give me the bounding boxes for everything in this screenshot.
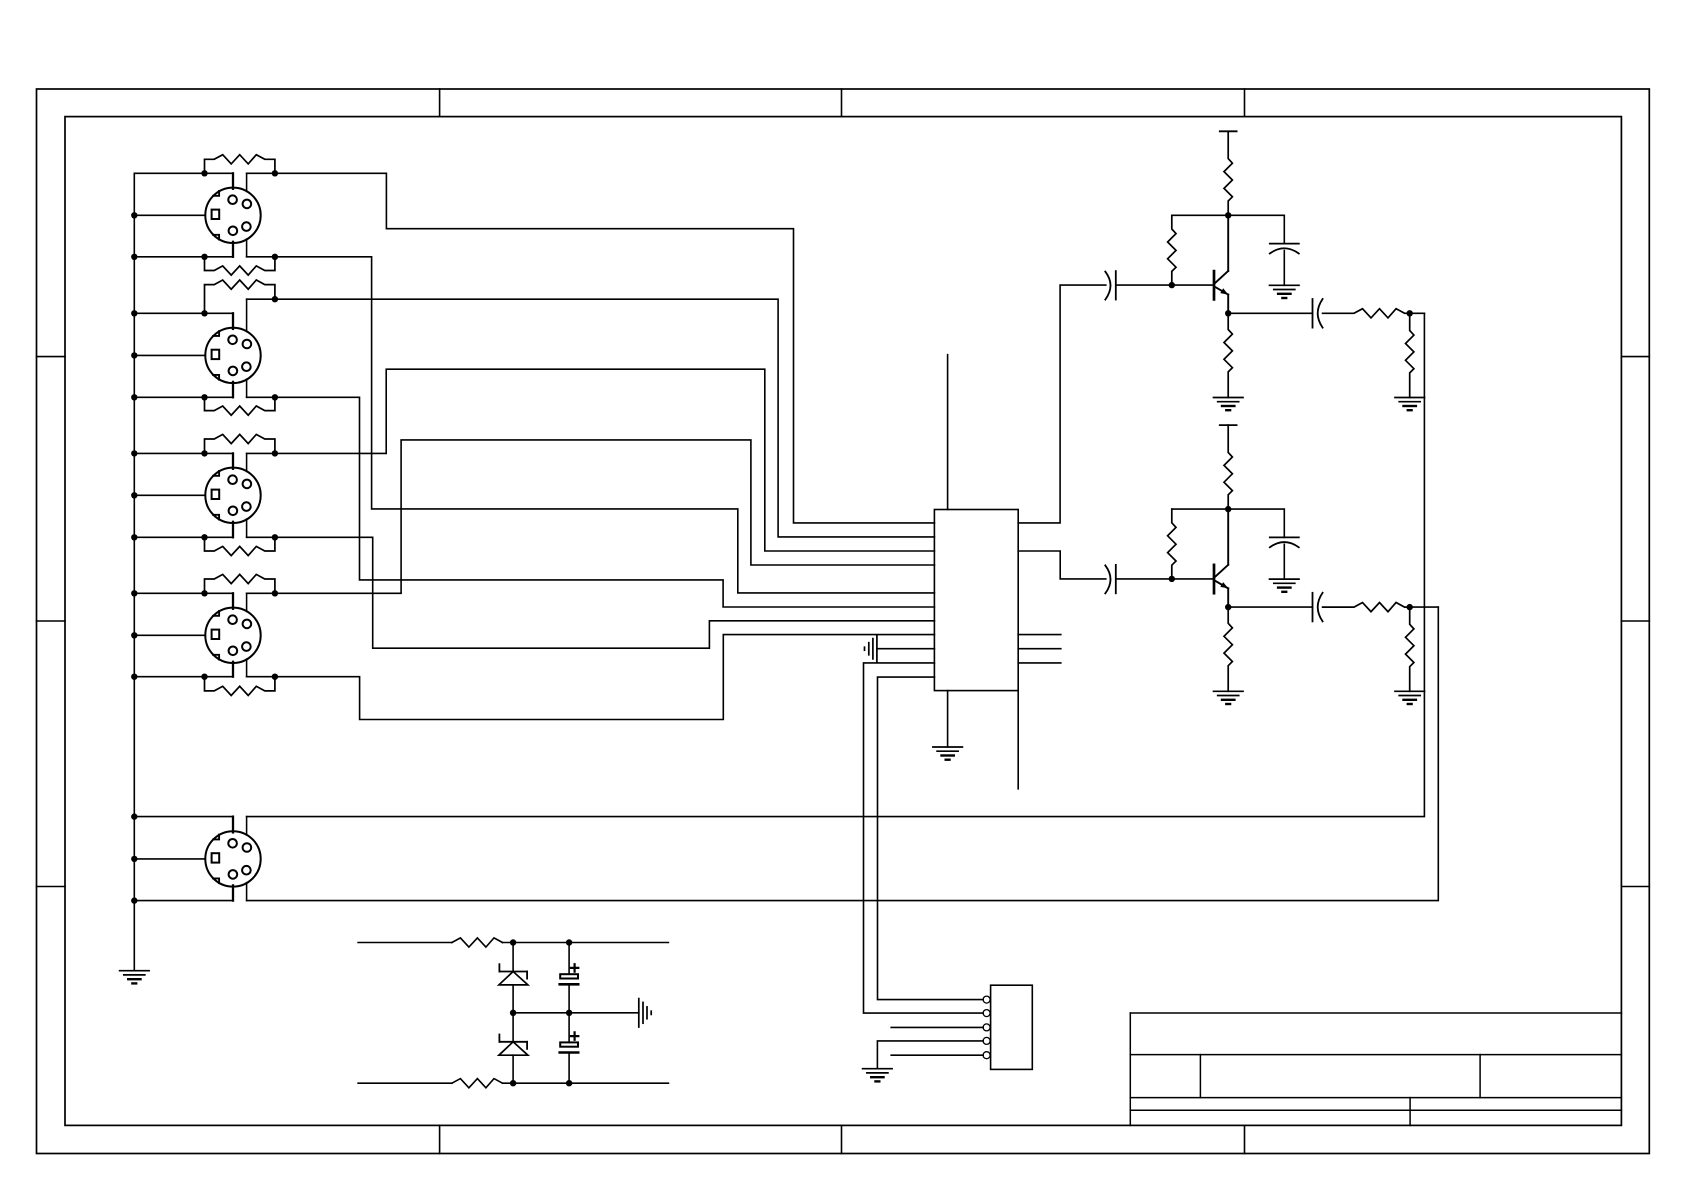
capacitor C1 (input coupling Q1) (1105, 272, 1110, 300)
connector J3 key/shield wire (134, 494, 205, 496)
wire: +rail to zener D1 (512, 943, 514, 972)
wire: J2 top-left pin stub (232, 313, 234, 329)
transistor Q1 (NPN) (1214, 215, 1228, 313)
wire: U1 right stub A (1018, 634, 1061, 636)
resistor R4 (J2 bottom termination) (205, 397, 275, 415)
wire: J1 top-left pin stub (232, 173, 234, 189)
wire: J4 bottom-right pin stub (246, 659, 248, 677)
wire: midpoint to C10 (568, 1013, 570, 1043)
node: J3 top line (left segment) (134, 452, 233, 454)
resistor R15 (emitter Q2) (1224, 607, 1232, 691)
resistor R18 (output load Q2) (1406, 607, 1414, 691)
wire: stage 1 output to J5 (1410, 312, 1425, 314)
resistor R13 (collector load Q2) (1224, 425, 1232, 509)
wire: J6 pin 5 stub (891, 1054, 983, 1056)
node: J2 top-left line (to bus) (134, 312, 233, 314)
wire: U1 pin 10 to J6 pin 2 (864, 663, 984, 1013)
wire: collector node to bias resistor (Q2) (1172, 508, 1228, 510)
wire: J3 top-right pin stub (246, 453, 248, 471)
connector J6 pin 5 circle (983, 1052, 990, 1059)
wire: U1 bottom-right stub (1017, 691, 1019, 789)
wire: collector node to bypass capacitor (Q2) (1228, 509, 1284, 537)
wire S8: J4 bottom-right to U1 pin 8 (247, 635, 935, 720)
wire: negative rail (right) (503, 1082, 669, 1084)
resistor R19 (positive rail series) (452, 938, 503, 947)
node: collector of Q2 (1225, 506, 1231, 512)
wire: input cap to base of Q2 (1116, 578, 1213, 580)
wire: +rail to C9 (568, 943, 570, 975)
resistor R11 (emitter Q1) (1224, 313, 1232, 397)
wire: stage 2 output down to J5 bottom line (247, 607, 1439, 901)
ground (bus) (120, 970, 150, 972)
wire: J4 bottom-left pin stub (232, 662, 234, 677)
capacitor C6 (output coupling Q2) (1312, 593, 1314, 622)
zener diode D2 (499, 1035, 528, 1056)
wire: J1 bottom-left pin stub (232, 242, 234, 257)
connector J6 pin 3 circle (983, 1024, 990, 1031)
connector J4 key/shield wire (134, 634, 205, 636)
wire: J3 top-left pin stub (232, 453, 234, 468)
node: J5 top line (left segment) (134, 816, 233, 818)
signal ground (U1 pin 9) (876, 635, 878, 662)
ground (bypass cap Q2) (1270, 578, 1300, 580)
resistor R3 (J2 top termination) (205, 280, 275, 313)
wire: J6 pin 4 to ground (877, 1041, 983, 1069)
wire: stage 1 output down to J5 top line (247, 313, 1425, 816)
wire: J5 bottom-left pin stub (232, 885, 234, 900)
wire S5: J3 top-right to U1 pin 3 (247, 369, 935, 551)
node: J4 top line (left segment) (134, 592, 233, 594)
wire: U1 pin 9 to signal-ground symbol (877, 648, 935, 650)
wire: J5 top-left pin stub (232, 817, 234, 833)
wire: J5 bottom-right pin stub (246, 883, 248, 901)
wire S2: J1 bottom-right to U1 pin 5 (247, 257, 935, 593)
wire: J4 top-right pin stub (246, 593, 248, 611)
wire: stage 1 input from U1 (1018, 285, 1106, 523)
node: J1 bottom line (left segment) (134, 256, 233, 258)
power rail bar (stage 2) (1220, 424, 1237, 426)
sheet inner border frame (65, 117, 1621, 1126)
connector J1 (4-pin mini-DIN) (205, 188, 260, 243)
node: emitter of Q1 (1225, 310, 1231, 316)
node: J4 bottom line (left segment) (134, 676, 233, 678)
connector J5 (4-pin mini-DIN) (205, 831, 260, 886)
wire: positive rail (right) (503, 942, 669, 944)
resistor R5 (J3 top termination) (205, 434, 275, 453)
electrolytic capacitor C10 (560, 1032, 579, 1052)
connector J6 pin 1 circle (983, 996, 990, 1003)
node: J5 bottom line (left segment) (134, 900, 233, 902)
node: output of stage 2 (1407, 604, 1413, 610)
connector J3 (4-pin mini-DIN) (205, 468, 260, 523)
resistor R10 (base bias Q1) (1168, 215, 1176, 285)
node: output of stage 1 (1407, 310, 1413, 316)
resistor R8 (J4 bottom termination) (205, 677, 275, 696)
resistor R20 (negative rail series) (452, 1079, 503, 1088)
ground (output load Q2) (1395, 690, 1425, 692)
node: emitter of Q2 (1225, 604, 1231, 610)
capacitor C3 (input coupling Q2) (1105, 565, 1110, 593)
wire: bypass cap to ground (Q1) (1283, 251, 1285, 286)
wire: J1 bottom-right pin stub (246, 239, 248, 257)
wire: emitter node to output cap (Q1) (1228, 312, 1312, 314)
ground bus wire (133, 173, 135, 970)
wire: J6 pin 3 stub (891, 1026, 983, 1028)
resistor R7 (J4 top termination) (205, 574, 275, 593)
wire: J2 top-right pin stub (246, 299, 248, 331)
wire: bypass cap to ground (Q2) (1283, 544, 1285, 579)
wire: D2 to negative rail (512, 1055, 514, 1083)
wire: stage 2 output to J5 (1410, 606, 1439, 608)
electrolytic capacitor C9 (560, 964, 579, 984)
node: J1 top line (left segment to bus) (134, 172, 233, 174)
wire: input cap to base of Q1 (1116, 284, 1213, 286)
wire: positive rail (358, 942, 452, 944)
wire: U1 pin 11 to J6 pin 1 (878, 677, 984, 1000)
node: collector of Q1 (1225, 212, 1231, 218)
connector J6 pin 4 circle (983, 1037, 990, 1044)
wire: J2 bottom-right pin stub (246, 379, 248, 397)
wire: U1 right stub C (1018, 662, 1061, 664)
connector J2 key/shield wire (134, 354, 205, 356)
IC U1 (934, 510, 1018, 691)
wire: J1 top-right pin stub (246, 173, 248, 191)
resistor R1 (J1 top termination) (205, 155, 275, 174)
wire: C10 to negative rail (568, 1054, 570, 1083)
wire: J3 bottom-left pin stub (232, 522, 234, 538)
node: base of Q2 (1169, 576, 1175, 582)
node: base of Q1 (1169, 282, 1175, 288)
capacitor C4 (collector bypass Q2) (1270, 536, 1299, 538)
ground (U1 bottom pin) (933, 746, 963, 748)
connector J6 pin 2 circle (983, 1010, 990, 1017)
wire: J4 top-left pin stub (232, 593, 234, 609)
wire S3: J2 top-right to U1 pin 2 (247, 299, 935, 537)
wire: U1 right stub B (1018, 648, 1061, 650)
wire: J3 bottom-right pin stub (246, 519, 248, 537)
wire: emitter node to output cap (Q2) (1228, 606, 1312, 608)
wire: J2 bottom-left pin stub (232, 382, 234, 397)
ground (bypass cap Q1) (1270, 284, 1300, 286)
resistor R17 (output load Q1) (1406, 313, 1414, 397)
resistor R14 (base bias Q2) (1168, 509, 1176, 579)
wire: stage 2 input from U1 (1018, 551, 1106, 579)
resistor R16 (output series Q2) (1323, 603, 1410, 612)
wire: C9 to midpoint (568, 984, 570, 1013)
connector J6 (5-pin header) (991, 985, 1033, 1069)
ground (output load Q1) (1395, 397, 1425, 399)
wire S1: J1 top-right to U1 pin 1 (247, 173, 935, 523)
wire: D1 to midpoint node (512, 985, 514, 1042)
node: C9/C10 midpoint (566, 1010, 572, 1016)
resistor R12 (output series Q1) (1323, 309, 1410, 318)
ground (emitter resistor Q1) (1214, 397, 1244, 399)
wire S4: J2 bottom-right to U1 pin 6 (247, 397, 935, 607)
resistor R2 (J1 bottom termination) (205, 257, 275, 275)
wire: U1 top pin stub (947, 355, 949, 510)
node: J3 bottom line (left segment) (134, 536, 233, 538)
wire: collector node to bypass capacitor (Q1) (1228, 215, 1284, 243)
zener diode D1 (499, 964, 528, 985)
connector J4 (4-pin mini-DIN) (205, 608, 260, 663)
resistor R9 (collector load Q1) (1224, 131, 1232, 215)
wire: U1 bottom pin to ground (947, 691, 949, 747)
wire: negative rail (358, 1082, 452, 1084)
node: zener midpoint (510, 1010, 516, 1016)
wire: collector node to bias resistor (Q1) (1172, 214, 1228, 216)
resistor R6 (J3 bottom termination) (205, 537, 275, 555)
capacitor C2 (collector bypass Q1) (1270, 243, 1299, 245)
title block (1130, 1013, 1621, 1125)
connector J5 key/shield wire (134, 858, 205, 860)
capacitor C5 (output coupling Q1) (1312, 299, 1314, 328)
signal ground (power midpoint) (638, 999, 640, 1027)
ground (J6 pin 4) (863, 1068, 893, 1070)
wire S6: J3 bottom-right to U1 pin 7 (247, 537, 935, 648)
wire: J5 top-right pin stub (246, 817, 248, 836)
connector J2 (4-pin mini-DIN) (205, 328, 260, 383)
power rail bar (stage 1) (1220, 130, 1237, 132)
wire S7: J4 top-right to U1 pin 4 (247, 440, 935, 593)
transistor Q2 (NPN) (1214, 509, 1228, 607)
wire: midpoint line to signal ground (513, 1012, 639, 1014)
connector J1 key/shield wire (134, 214, 205, 216)
ground (emitter resistor Q2) (1214, 690, 1244, 692)
node: J2 bottom line (left segment) (134, 396, 233, 398)
